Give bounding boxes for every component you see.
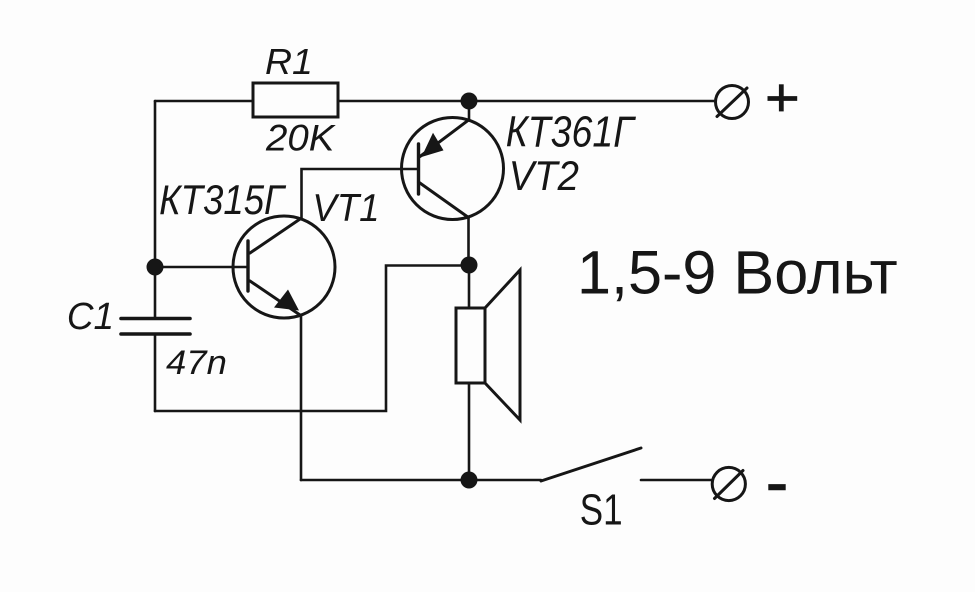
svg-text:VT2: VT2 bbox=[509, 152, 579, 199]
terminal minus bbox=[712, 467, 745, 500]
svg-text:47n: 47n bbox=[166, 344, 227, 382]
node B bbox=[147, 259, 164, 276]
node A bbox=[461, 93, 478, 110]
wire bbox=[302, 169, 419, 219]
terminal plus bbox=[716, 86, 749, 119]
wire bbox=[154, 101, 157, 317]
wire bbox=[155, 266, 469, 412]
wire bbox=[468, 265, 471, 308]
node C bbox=[461, 257, 478, 274]
wire bbox=[468, 383, 471, 480]
switch S1 bbox=[541, 448, 641, 481]
svg-text:C1: C1 bbox=[67, 295, 114, 338]
svg-text:КТ361Г: КТ361Г bbox=[506, 107, 636, 157]
wire bbox=[301, 479, 541, 482]
svg-text:S1: S1 bbox=[580, 486, 623, 534]
wire bbox=[155, 266, 248, 269]
speaker BA1 bbox=[456, 270, 520, 420]
svg-text:20K: 20K bbox=[265, 117, 336, 158]
wire bbox=[468, 101, 471, 120]
wire bbox=[641, 479, 713, 482]
svg-text:1,5-9 Вольт: 1,5-9 Вольт bbox=[577, 239, 898, 307]
svg-text:R1: R1 bbox=[265, 42, 313, 82]
label + bbox=[768, 84, 798, 111]
label - bbox=[768, 484, 785, 490]
wire bbox=[155, 100, 253, 103]
node D bbox=[461, 472, 478, 489]
svg-text:VT1: VT1 bbox=[312, 187, 379, 230]
wire bbox=[154, 336, 157, 412]
capacitor C1 bbox=[121, 319, 190, 335]
transistor VT2 bbox=[402, 118, 504, 220]
transistor VT1 bbox=[233, 216, 335, 318]
wire bbox=[338, 100, 716, 103]
wire bbox=[300, 316, 303, 481]
resistor R1 bbox=[253, 83, 338, 117]
wire bbox=[467, 218, 470, 266]
svg-text:КТ315Г: КТ315Г bbox=[159, 178, 286, 224]
